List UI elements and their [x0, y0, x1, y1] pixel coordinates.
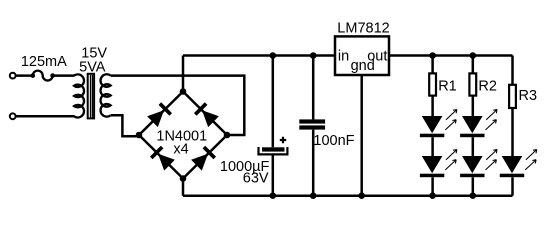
resistor R2 branch wire top	[472, 56, 475, 74]
fuse F1 left dot	[31, 73, 36, 78]
resistor R2 body	[469, 73, 476, 95]
wire LED D5 to LED D6	[431, 137, 434, 156]
resistor R3 body	[509, 85, 516, 108]
+V top rail left section (bridge to LM7812 in)	[183, 54, 335, 57]
capacitor C2 wire from +V rail	[312, 56, 315, 120]
diode D3 (bridge bottom-left)	[150, 146, 175, 171]
capacitor C1 positive plate	[262, 147, 285, 151]
capacitor C2 bottom plate	[299, 125, 325, 129]
wire fuse to transformer primary	[53, 74, 75, 77]
transformer T1 primary winding	[74, 74, 84, 117]
svg-text:R2: R2	[478, 78, 497, 94]
LED D6	[420, 150, 457, 178]
capacitor C2 top plate	[299, 119, 325, 123]
wire terminal J1 to fuse	[16, 74, 33, 77]
capacitor C1 wire from +V rail	[272, 56, 275, 148]
transformer T1 secondary winding	[101, 74, 111, 116]
resistor R3 branch wire top	[511, 56, 514, 85]
0V bottom rail	[183, 194, 513, 197]
junction dot R1 top	[429, 52, 436, 59]
svg-text:5VA: 5VA	[79, 60, 106, 76]
junction dot C1 bottom	[270, 192, 277, 199]
wire LED D7 to LED D8	[472, 137, 475, 156]
fuse F1 right dot	[50, 73, 55, 78]
junction dot bridge bottom vertex	[180, 175, 187, 182]
svg-text:R1: R1	[438, 78, 457, 94]
diode D4 (bridge bottom-right)	[191, 146, 216, 171]
terminal J2 (bottom left input)	[10, 113, 16, 119]
svg-text:in: in	[338, 49, 349, 65]
wire R1 to LED D5	[431, 96, 434, 116]
wire LED D8 to 0V rail	[472, 177, 475, 195]
LED D8	[460, 150, 497, 178]
bridge edge wire top-right	[183, 92, 227, 136]
junction dot R2 top	[470, 52, 477, 59]
diode D1 (bridge left-top)	[147, 102, 172, 127]
wire secondary top lead to node at x=244	[111, 76, 245, 135]
wire bridge top vertex up to +V rail	[182, 56, 185, 92]
LED D9	[500, 150, 537, 178]
resistor R1 body	[429, 73, 436, 95]
svg-text:63V: 63V	[243, 171, 269, 187]
LED D5	[420, 110, 457, 138]
resistor R1 branch wire top	[431, 56, 434, 74]
junction dot bridge left vertex	[136, 132, 143, 139]
capacitor C2 wire to 0V rail	[312, 130, 315, 196]
svg-text:x4: x4	[173, 142, 188, 158]
LED D7	[460, 110, 497, 138]
transformer T1 core	[88, 74, 94, 119]
regulator U1 LM7812 box	[335, 36, 389, 75]
wire terminal J2 to transformer primary	[16, 115, 75, 118]
+V top rail right section (LM7812 out to R3 branch)	[389, 54, 513, 57]
bridge edge wire right-bottom	[183, 135, 227, 179]
svg-text:LM7812: LM7812	[337, 20, 389, 36]
diode D2 (bridge right-top)	[194, 102, 219, 127]
bridge edge wire bottom-left	[139, 135, 183, 179]
junction dot LED D8 bottom	[470, 192, 477, 199]
terminal J1 (top left input)	[10, 73, 16, 79]
svg-text:gnd: gnd	[351, 58, 375, 74]
capacitor C1 negative plate (U shape)	[259, 147, 288, 154]
junction dot LED D6 bottom	[429, 192, 436, 199]
svg-text:R3: R3	[519, 88, 538, 104]
capacitor C1 polarity plus sign	[280, 137, 286, 143]
bridge edge wire left-top	[139, 92, 183, 136]
capacitor C1 wire to 0V rail	[272, 154, 275, 196]
regulator U1 gnd wire to 0V rail	[360, 75, 363, 196]
junction dot C2 bottom	[310, 192, 317, 199]
junction dot gnd bottom	[358, 192, 365, 199]
junction dot bridge top vertex	[180, 88, 187, 95]
wire R3 to LED D9	[511, 108, 514, 156]
wire bridge bottom vertex down to 0V rail	[182, 179, 185, 196]
wire R2 to LED D7	[472, 96, 475, 116]
wire LED D9 to 0V rail	[511, 177, 514, 195]
svg-text:125mA: 125mA	[21, 54, 67, 70]
fuse F1	[33, 71, 53, 81]
wire LED D6 to 0V rail	[431, 177, 434, 195]
wire secondary bottom lead to bridge left vertex	[111, 115, 139, 136]
junction dot C2 top	[310, 52, 317, 59]
junction dot bridge right vertex	[224, 132, 231, 139]
junction dot C1 top	[270, 52, 277, 59]
svg-text:100nF: 100nF	[313, 133, 354, 149]
